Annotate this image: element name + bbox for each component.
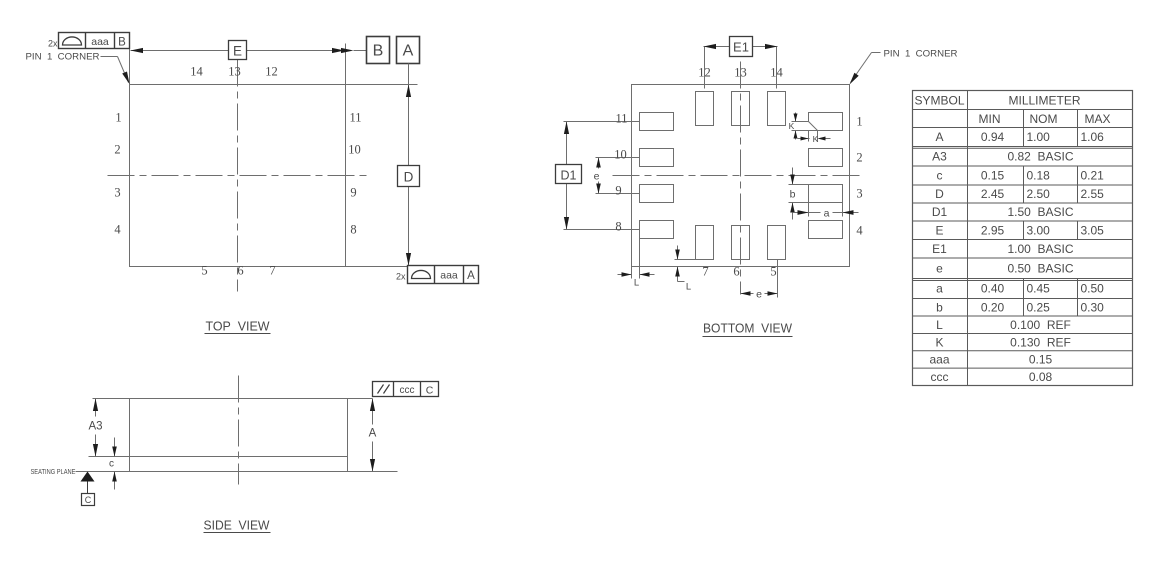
svg-text:1.06: 1.06 bbox=[1081, 130, 1105, 144]
svg-text:11: 11 bbox=[615, 112, 627, 126]
dimension L vertical label bbox=[686, 282, 691, 293]
dimension D arrow up bbox=[406, 85, 411, 98]
dimension c line bbox=[114, 438, 116, 490]
svg-text:aaa: aaa bbox=[929, 353, 949, 367]
top view horizontal centerline bbox=[108, 175, 368, 177]
dimension a label bbox=[824, 208, 830, 220]
svg-text:0.20: 0.20 bbox=[981, 300, 1005, 314]
dimension A3 arrows bbox=[93, 399, 98, 457]
svg-text:14: 14 bbox=[770, 66, 783, 80]
svg-text:5: 5 bbox=[770, 265, 776, 279]
svg-text:0.45: 0.45 bbox=[1027, 282, 1051, 296]
dimension A3 label bbox=[88, 421, 102, 433]
svg-text:9: 9 bbox=[350, 186, 356, 200]
svg-text:0.82 BASIC: 0.82 BASIC bbox=[1007, 149, 1073, 163]
dimension e (bottom) label bbox=[756, 289, 762, 301]
bottom view package body outline bbox=[632, 85, 850, 267]
svg-text:0.08: 0.08 bbox=[1029, 370, 1053, 384]
side view body outline bbox=[130, 399, 348, 457]
bottom view pin number 4 (right) bbox=[856, 224, 863, 238]
table row A3 bbox=[932, 149, 1074, 163]
dimension K vertical label bbox=[789, 121, 795, 131]
dimension A3 line bbox=[95, 399, 97, 457]
svg-text:a: a bbox=[936, 282, 943, 296]
svg-text:B: B bbox=[373, 43, 384, 60]
svg-text:SYMBOL: SYMBOL bbox=[914, 94, 964, 108]
bottom view pad 5 (bottom row) bbox=[768, 226, 786, 260]
dimension L horizontal arrows bbox=[622, 272, 650, 277]
top view pin number 5 (bottom) bbox=[201, 264, 207, 278]
pin 1 corner label (top view) bbox=[26, 52, 129, 83]
svg-text:e: e bbox=[756, 289, 762, 301]
svg-text:SEATING PLANE: SEATING PLANE bbox=[31, 467, 76, 476]
bottom view pad 4 (right column) bbox=[809, 221, 843, 239]
bottom view pin number 11 (left) bbox=[615, 112, 627, 126]
svg-text:2x: 2x bbox=[48, 39, 58, 49]
bottom view vertical centerline bbox=[740, 62, 742, 295]
dimension b extension lines bbox=[789, 185, 809, 203]
svg-text:2.50: 2.50 bbox=[1027, 187, 1051, 201]
svg-text:MIN: MIN bbox=[979, 112, 1001, 126]
svg-text:K: K bbox=[935, 335, 943, 349]
TOP VIEW title bbox=[205, 319, 271, 334]
svg-text:0.15: 0.15 bbox=[1029, 353, 1053, 367]
svg-text:K: K bbox=[813, 134, 819, 144]
svg-text:L: L bbox=[936, 318, 943, 332]
table row A bbox=[935, 130, 1104, 144]
dimension L vertical arrows bbox=[675, 250, 680, 277]
svg-text:C: C bbox=[85, 495, 92, 505]
svg-text:0.40: 0.40 bbox=[981, 282, 1005, 296]
dimension e (left) label bbox=[594, 171, 600, 183]
bottom view pin number 10 (left) bbox=[614, 148, 627, 162]
table row b bbox=[936, 300, 1104, 314]
svg-text:0.130 REF: 0.130 REF bbox=[1010, 335, 1071, 349]
dimension L vertical extension line bbox=[675, 259, 696, 261]
svg-text:1.00: 1.00 bbox=[1027, 130, 1051, 144]
top view pin number 14 (top) bbox=[190, 65, 203, 79]
svg-text:E1: E1 bbox=[733, 40, 749, 55]
svg-text:14: 14 bbox=[190, 65, 203, 79]
bottom view pin number 3 (right) bbox=[856, 187, 862, 201]
bottom view pad 6 (bottom row) bbox=[732, 226, 750, 260]
top view pin number 13 (top) bbox=[228, 65, 241, 79]
dimension e (left) arrows bbox=[596, 158, 601, 194]
BOTTOM VIEW title bbox=[703, 321, 793, 337]
svg-text:1.50 BASIC: 1.50 BASIC bbox=[1007, 205, 1073, 219]
dimension E arrow right bbox=[332, 48, 345, 53]
top view pin number 9 (right) bbox=[350, 186, 356, 200]
bottom view pad 10 (left column) bbox=[640, 149, 674, 167]
dimension E1 arrows bbox=[704, 44, 778, 49]
pin 1 corner arrow (top view) bbox=[122, 72, 129, 85]
svg-text:7: 7 bbox=[269, 264, 275, 278]
svg-text:0.18: 0.18 bbox=[1027, 169, 1051, 183]
svg-text:A: A bbox=[369, 428, 377, 440]
svg-text:D: D bbox=[404, 170, 414, 185]
bottom view pin number 12 (top) bbox=[698, 66, 711, 80]
dimension K vertical arrows bbox=[794, 114, 798, 139]
bottom view pin number 9 (left) bbox=[615, 184, 621, 198]
svg-text:c: c bbox=[937, 169, 943, 183]
svg-text:11: 11 bbox=[349, 111, 361, 125]
top view package body outline bbox=[130, 85, 346, 267]
datum B symbol box bbox=[367, 37, 390, 64]
top view pin number 8 (right) bbox=[350, 223, 356, 237]
svg-text:7: 7 bbox=[702, 265, 708, 279]
top view pin number 10 (right) bbox=[348, 143, 361, 157]
dimension c arrows bbox=[112, 447, 117, 482]
svg-text:0.15: 0.15 bbox=[981, 169, 1005, 183]
svg-text:NOM: NOM bbox=[1030, 112, 1058, 126]
svg-text:0.50 BASIC: 0.50 BASIC bbox=[1007, 261, 1073, 275]
table row L bbox=[936, 318, 1071, 332]
svg-text:ccc: ccc bbox=[400, 385, 415, 396]
svg-text:0.50: 0.50 bbox=[1081, 282, 1105, 296]
svg-text:a: a bbox=[824, 208, 830, 220]
svg-text:12: 12 bbox=[265, 65, 278, 79]
top view pin number 2 (left) bbox=[114, 143, 120, 157]
dimension K vertical line bbox=[795, 113, 797, 140]
svg-text:10: 10 bbox=[614, 148, 627, 162]
bottom view pad 2 (right column) bbox=[809, 149, 843, 167]
svg-text:e: e bbox=[594, 171, 600, 183]
dimension E extension line left bbox=[129, 49, 131, 85]
bottom view pad 7 (bottom row) bbox=[696, 226, 714, 260]
svg-text:C: C bbox=[426, 385, 434, 397]
dimension E label box bbox=[229, 41, 247, 60]
svg-text:9: 9 bbox=[615, 184, 621, 198]
dimension E1 line bbox=[704, 46, 778, 48]
dimension e (bottom) extension line bbox=[777, 260, 779, 298]
bottom view pad 11 (left column) bbox=[640, 113, 674, 131]
svg-text:b: b bbox=[790, 189, 796, 201]
svg-text:8: 8 bbox=[615, 220, 621, 234]
svg-text:D1: D1 bbox=[932, 205, 948, 219]
table row c bbox=[937, 169, 1105, 183]
dimension b label bbox=[790, 189, 796, 201]
dimension E1 label box bbox=[730, 37, 753, 57]
dimension E arrow left bbox=[131, 48, 144, 53]
svg-text:E: E bbox=[935, 223, 943, 237]
svg-text:0.94: 0.94 bbox=[981, 130, 1005, 144]
dimension D1 arrows bbox=[564, 122, 569, 230]
dimension a arrows bbox=[798, 210, 854, 215]
dimension K horizontal label bbox=[813, 134, 819, 144]
svg-text:0.25: 0.25 bbox=[1027, 300, 1051, 314]
side view top extension line bbox=[93, 398, 373, 400]
dimension D1 label box bbox=[556, 165, 582, 184]
svg-text:B: B bbox=[118, 37, 126, 49]
svg-text:10: 10 bbox=[348, 143, 361, 157]
dimension K vertical extension lines bbox=[792, 122, 818, 131]
svg-text:e: e bbox=[936, 261, 943, 275]
table grid bbox=[913, 91, 1133, 386]
bottom view pad 1 (chamfered, right column) bbox=[809, 113, 843, 131]
dimension e (left) line bbox=[598, 158, 600, 194]
svg-text:A: A bbox=[935, 130, 943, 144]
table row E1 bbox=[932, 242, 1074, 256]
pin 1 corner label (bottom view) bbox=[851, 49, 958, 83]
bottom view pad 13 (top row) bbox=[732, 92, 750, 126]
dimension L horizontal extension lines bbox=[632, 239, 640, 279]
tolerance frame 2x aaa A bbox=[396, 266, 479, 284]
top view pin number 11 (right) bbox=[349, 111, 361, 125]
svg-text:2x: 2x bbox=[396, 272, 406, 282]
svg-text:6: 6 bbox=[733, 265, 739, 279]
bottom view pin number 6 (bottom) bbox=[733, 265, 739, 279]
svg-text:MILLIMETER: MILLIMETER bbox=[1008, 94, 1080, 108]
dimension E extension line right bbox=[345, 44, 347, 85]
svg-text:0.21: 0.21 bbox=[1081, 169, 1105, 183]
svg-text:b: b bbox=[936, 300, 943, 314]
datum C symbol box bbox=[82, 494, 95, 506]
svg-text:A3: A3 bbox=[932, 149, 947, 163]
top view pin number 6 (bottom) bbox=[237, 264, 243, 278]
svg-text:2.45: 2.45 bbox=[981, 187, 1005, 201]
side view A3 bottom extension line bbox=[89, 456, 130, 458]
svg-text:1: 1 bbox=[115, 111, 121, 125]
table header bbox=[914, 94, 1110, 127]
datum A connector line bbox=[408, 64, 410, 85]
bottom view horizontal centerline bbox=[613, 175, 862, 177]
dimension a extension lines bbox=[809, 203, 843, 217]
dimension K horizontal extension lines bbox=[809, 131, 818, 142]
top view pin number 3 (left) bbox=[114, 186, 120, 200]
bottom view pin number 2 (right) bbox=[856, 151, 862, 165]
svg-text:E: E bbox=[233, 44, 242, 59]
dimension K horizontal line bbox=[798, 138, 831, 140]
top view pin number 1 (left) bbox=[115, 111, 121, 125]
top view vertical centerline bbox=[237, 60, 239, 292]
dimension L horizontal label bbox=[634, 278, 639, 289]
dimension K horizontal arrows bbox=[801, 137, 826, 141]
table row E bbox=[935, 223, 1104, 237]
svg-text:6: 6 bbox=[237, 264, 243, 278]
bottom view pad 9 (left column) bbox=[640, 185, 674, 203]
dimension E line bbox=[131, 50, 345, 52]
svg-text:L: L bbox=[634, 278, 639, 289]
dimension D1 line bbox=[566, 122, 568, 230]
svg-text:12: 12 bbox=[698, 66, 711, 80]
svg-text:A3: A3 bbox=[88, 421, 102, 433]
bottom view pin number 1 (right) bbox=[856, 115, 862, 129]
svg-text:3.00: 3.00 bbox=[1027, 223, 1051, 237]
svg-text:0.100 REF: 0.100 REF bbox=[1010, 318, 1071, 332]
svg-text:D1: D1 bbox=[561, 169, 577, 183]
seating plane label bbox=[31, 467, 76, 476]
table row D bbox=[935, 187, 1104, 201]
svg-text:13: 13 bbox=[228, 65, 241, 79]
svg-text:1: 1 bbox=[856, 115, 862, 129]
svg-text:3: 3 bbox=[856, 187, 862, 201]
bottom view pin number 7 (bottom) bbox=[702, 265, 708, 279]
table row K bbox=[935, 335, 1070, 349]
svg-text:E1: E1 bbox=[932, 242, 947, 256]
svg-text:c: c bbox=[109, 459, 114, 470]
dimension c label bbox=[109, 459, 114, 470]
svg-text:4: 4 bbox=[114, 223, 121, 237]
svg-text:2: 2 bbox=[114, 143, 120, 157]
table row e bbox=[936, 261, 1074, 275]
bottom view pin number 13 (top) bbox=[734, 66, 747, 80]
dimension e (bottom) arrows bbox=[741, 291, 778, 296]
datum A symbol box bbox=[397, 37, 420, 64]
svg-text:aaa: aaa bbox=[91, 36, 109, 48]
dimension D label box bbox=[398, 166, 420, 187]
dimension e (left) extension lines bbox=[596, 158, 640, 194]
top view pin number 7 (bottom) bbox=[269, 264, 275, 278]
top view pin number 12 (top) bbox=[265, 65, 278, 79]
svg-text:3: 3 bbox=[114, 186, 120, 200]
svg-text:ccc: ccc bbox=[931, 370, 949, 384]
svg-text:K: K bbox=[789, 121, 795, 131]
svg-text:A: A bbox=[467, 270, 475, 282]
pin 1 corner arrow (bottom view) bbox=[850, 73, 859, 85]
dimension L horizontal line bbox=[618, 274, 655, 276]
dimension D line bbox=[408, 85, 410, 266]
table row aaa bbox=[929, 353, 1052, 367]
table row D1 bbox=[932, 205, 1074, 219]
dimension A label bbox=[369, 428, 377, 440]
svg-text:L: L bbox=[686, 282, 691, 293]
dimension b arrows bbox=[790, 175, 795, 213]
svg-text:TOP VIEW: TOP VIEW bbox=[206, 319, 271, 334]
svg-text:2.55: 2.55 bbox=[1081, 187, 1105, 201]
svg-text:2.95: 2.95 bbox=[981, 223, 1005, 237]
svg-text:8: 8 bbox=[350, 223, 356, 237]
datum B leader arrow bbox=[341, 48, 367, 53]
dimension e (bottom) line bbox=[741, 293, 778, 295]
bottom view pad 8 (left column) bbox=[640, 221, 674, 239]
svg-text:MAX: MAX bbox=[1084, 112, 1110, 126]
datum C triangle bbox=[81, 472, 95, 494]
dimension E1 extension lines bbox=[705, 47, 777, 89]
table row a bbox=[936, 282, 1104, 296]
bottom view pin number 5 (bottom) bbox=[770, 265, 776, 279]
svg-text:SIDE VIEW: SIDE VIEW bbox=[204, 518, 271, 533]
side view vertical centerline bbox=[238, 376, 240, 485]
svg-text:D: D bbox=[935, 187, 944, 201]
tolerance frame 2x aaa B bbox=[48, 33, 130, 49]
svg-text:2: 2 bbox=[856, 151, 862, 165]
dimension L vertical line bbox=[678, 246, 685, 282]
svg-text:PIN 1 CORNER: PIN 1 CORNER bbox=[884, 49, 958, 60]
dimension D1 extension lines bbox=[564, 122, 640, 230]
bottom view pad 3 (right column) bbox=[809, 185, 843, 203]
svg-text:4: 4 bbox=[856, 224, 863, 238]
dimension D arrow down bbox=[406, 253, 411, 266]
svg-text:5: 5 bbox=[201, 264, 207, 278]
bottom view pin number 8 (left) bbox=[615, 220, 621, 234]
table row ccc bbox=[931, 370, 1053, 384]
svg-text:1.00 BASIC: 1.00 BASIC bbox=[1007, 242, 1073, 256]
svg-text:aaa: aaa bbox=[440, 270, 458, 282]
dimension a line bbox=[793, 212, 859, 214]
svg-text:13: 13 bbox=[734, 66, 747, 80]
svg-text:3.05: 3.05 bbox=[1081, 223, 1105, 237]
top view pin number 4 (left) bbox=[114, 223, 121, 237]
bottom view pin number 14 (top) bbox=[770, 66, 783, 80]
SIDE VIEW title bbox=[204, 518, 271, 533]
dimension D extension line bottom bbox=[346, 266, 408, 268]
bottom view pad 14 (top row) bbox=[768, 92, 786, 126]
svg-text:0.30: 0.30 bbox=[1081, 300, 1105, 314]
svg-text:BOTTOM VIEW: BOTTOM VIEW bbox=[703, 321, 793, 336]
dimension b line bbox=[792, 168, 794, 220]
svg-text:A: A bbox=[403, 43, 414, 60]
side view lead frame strip bbox=[130, 457, 348, 472]
side view seating plane line bbox=[76, 471, 398, 473]
svg-text:PIN 1 CORNER: PIN 1 CORNER bbox=[26, 52, 100, 63]
dimension A arrows bbox=[370, 399, 375, 472]
parallelism frame ccc C bbox=[373, 382, 439, 397]
dimension D extension line top bbox=[346, 84, 418, 86]
dimension A line bbox=[372, 399, 374, 472]
bottom view pad 12 (top row) bbox=[696, 92, 714, 126]
